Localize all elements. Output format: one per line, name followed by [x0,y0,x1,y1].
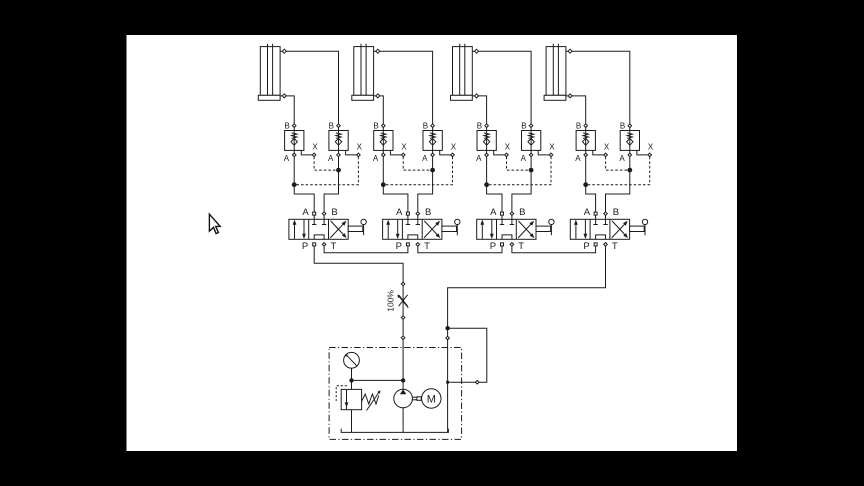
svg-text:100%: 100% [385,290,395,312]
svg-text:M: M [427,393,436,405]
